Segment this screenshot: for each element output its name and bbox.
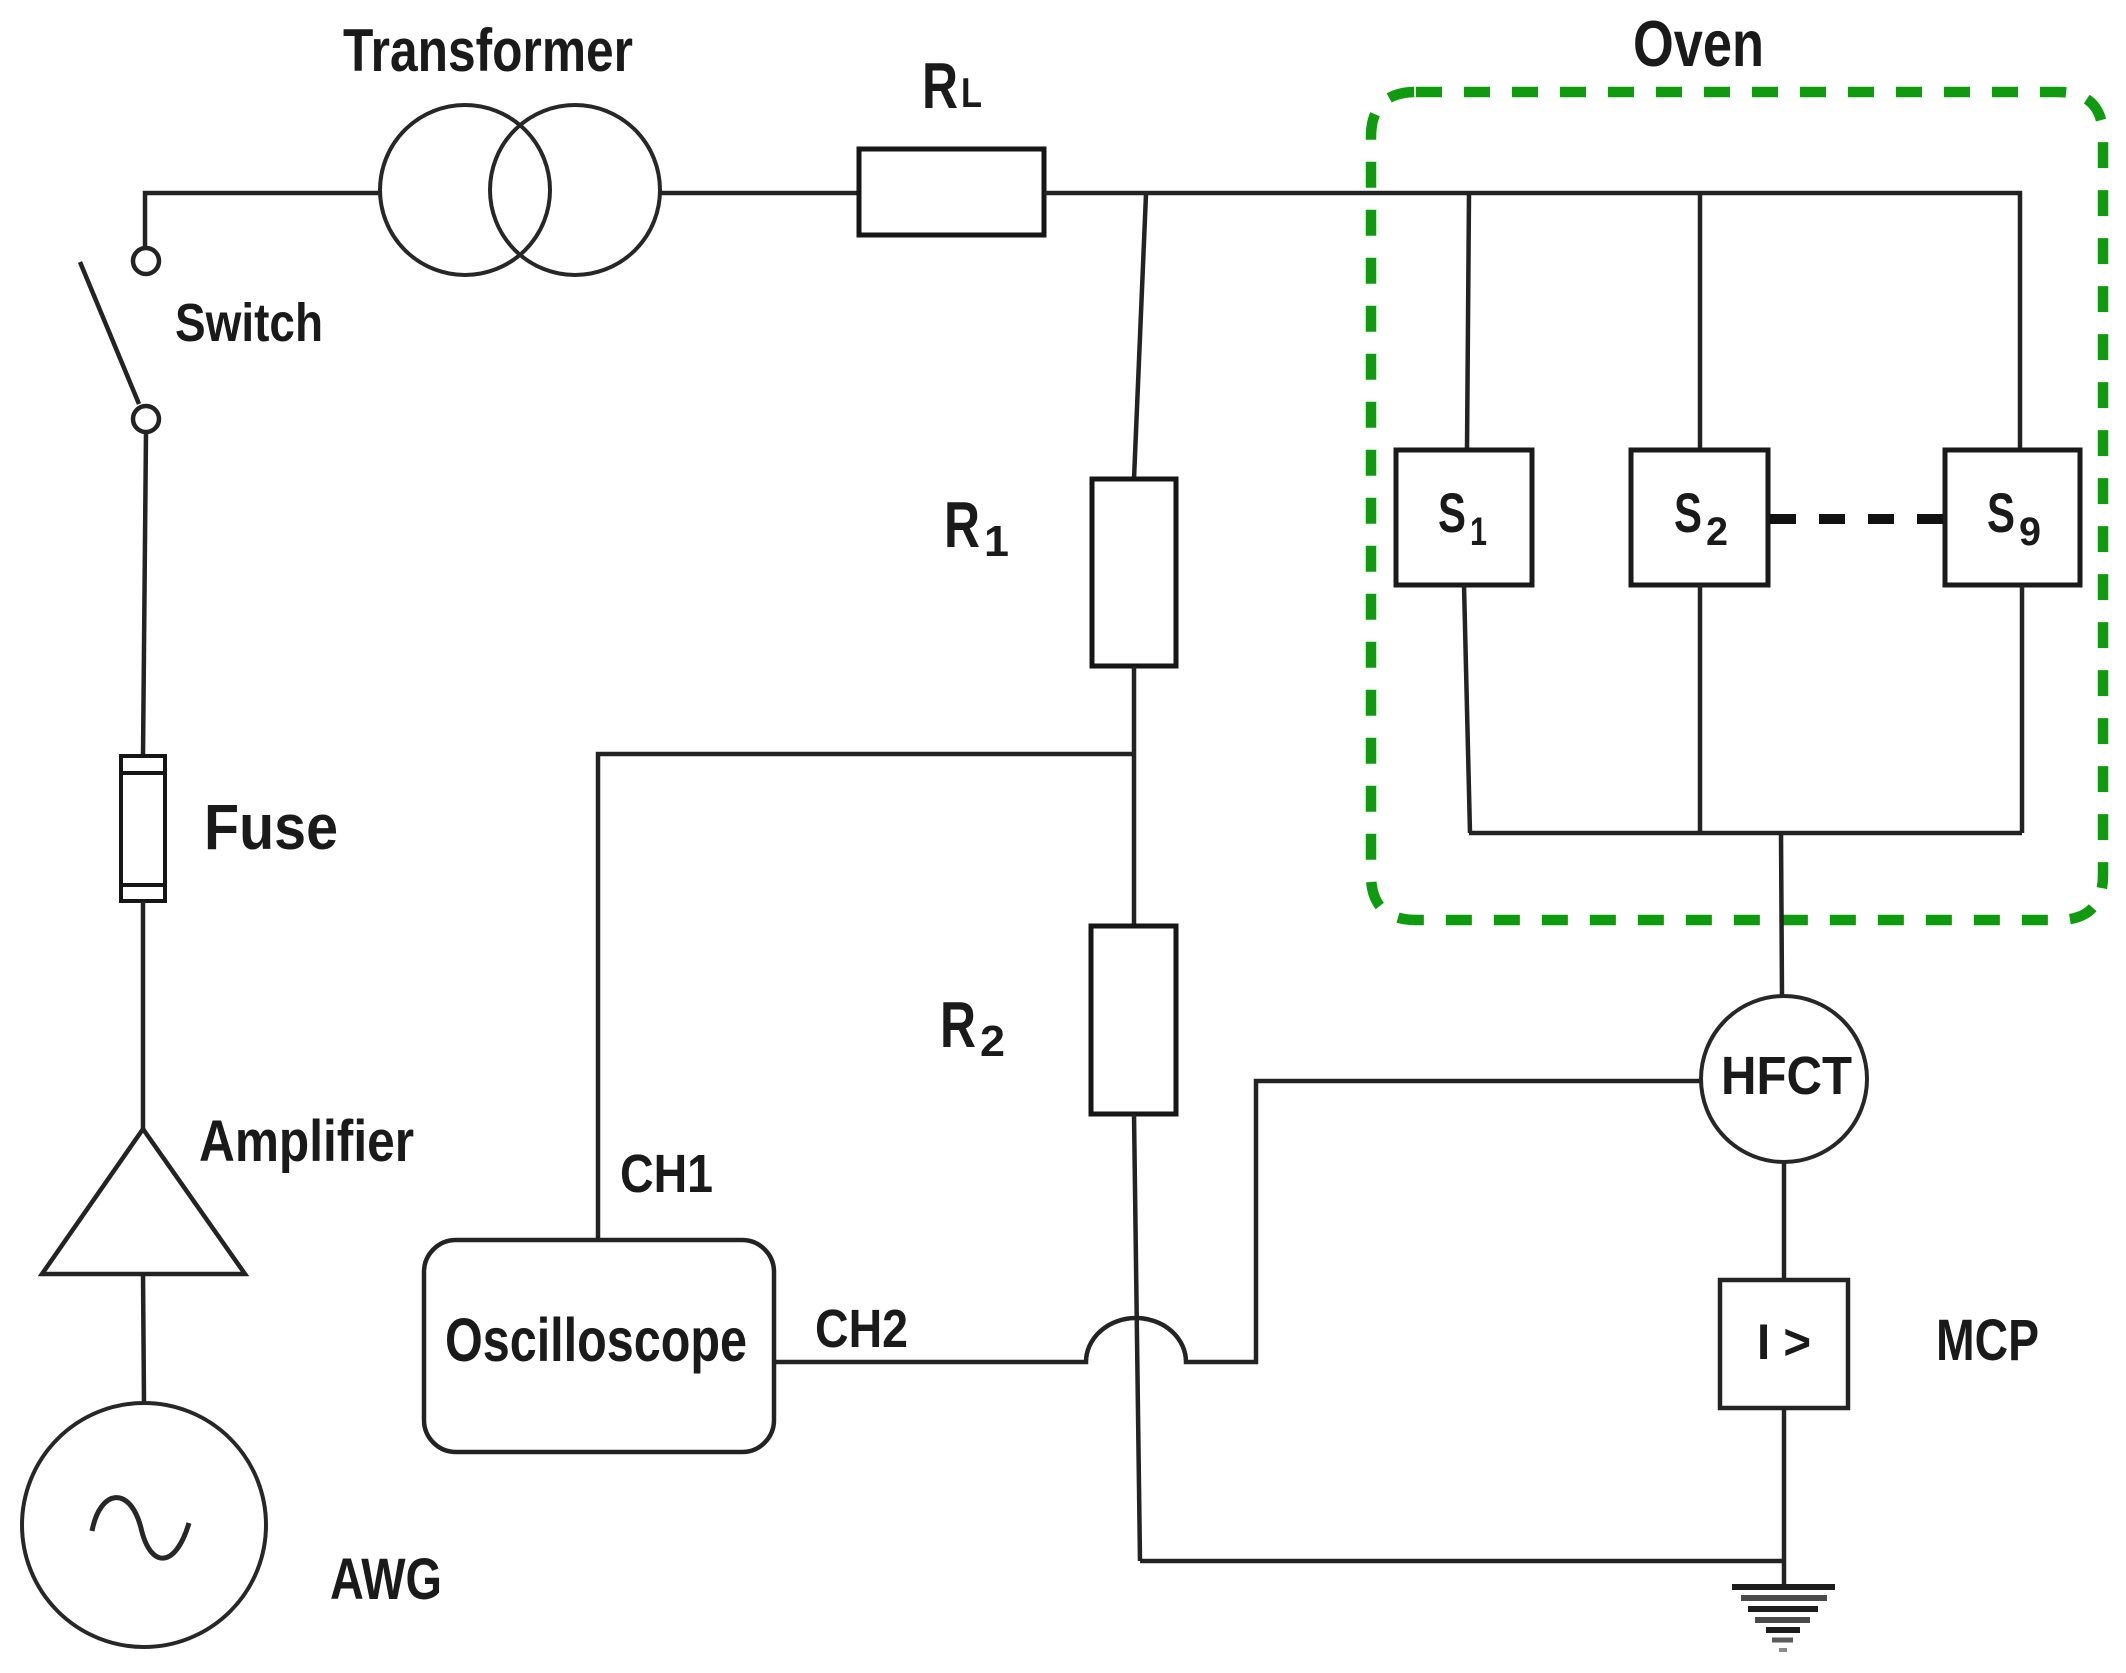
svg-text:Oven: Oven — [1633, 7, 1764, 80]
svg-text:Oscilloscope: Oscilloscope — [445, 1306, 747, 1374]
svg-text:CH1: CH1 — [620, 1144, 713, 1204]
wire HFCT to MCP — [1782, 1162, 1787, 1280]
sample S9 — [1945, 450, 2080, 585]
fuse F1 — [121, 756, 165, 901]
node CH1 junction — [598, 754, 1134, 1240]
svg-text:2: 2 — [980, 1017, 1005, 1066]
svg-text:1: 1 — [1470, 510, 1487, 554]
resistor R2 — [1091, 926, 1176, 1114]
svg-text:AWG: AWG — [330, 1547, 442, 1612]
wire branch to S1 — [1467, 193, 1469, 450]
HFCT sensor — [1701, 996, 1867, 1162]
oscilloscope — [424, 1240, 774, 1452]
MCP relay — [1720, 1280, 1848, 1408]
sample S2 — [1631, 450, 1768, 585]
svg-text:R: R — [940, 988, 976, 1061]
wire top-left corner to switch — [145, 193, 381, 248]
resistor R1 — [1092, 479, 1176, 666]
wire switch to fuse — [143, 432, 146, 756]
svg-text:R: R — [922, 49, 958, 122]
oven bottom bus — [1469, 831, 2022, 836]
svg-text:R: R — [944, 488, 980, 561]
sine symbol — [92, 1498, 189, 1559]
svg-text:S: S — [1438, 481, 1466, 544]
svg-text:S: S — [1674, 481, 1702, 544]
svg-text:9: 9 — [2019, 510, 2041, 554]
wire S1 bottom — [1464, 585, 1470, 833]
wire branch to S2 — [1698, 193, 1703, 450]
wire CH2 with hop — [774, 1081, 1701, 1362]
wire R1 to R2 — [1132, 666, 1137, 926]
svg-text:I >: I > — [1757, 1314, 1811, 1370]
svg-text:CH2: CH2 — [815, 1299, 908, 1359]
svg-text:Switch: Switch — [175, 293, 323, 353]
svg-text:2: 2 — [1706, 510, 1728, 554]
amplifier A1 — [42, 1129, 245, 1274]
svg-text:Fuse: Fuse — [204, 791, 338, 863]
bottom return wire — [1140, 1559, 1784, 1564]
wire MCP to ground — [1782, 1408, 1787, 1587]
wire transformer to RL — [660, 191, 859, 196]
wire RL to oven right corner — [1044, 193, 2020, 450]
switch SW1 — [80, 248, 159, 432]
wire bus to HFCT — [1781, 833, 1782, 996]
AWG source — [22, 1403, 266, 1647]
sample S1 — [1396, 450, 1532, 585]
svg-text:L: L — [961, 69, 982, 116]
svg-text:MCP: MCP — [1936, 1308, 2039, 1373]
wire RL junction down to R1 — [1134, 194, 1146, 479]
resistor RL — [859, 149, 1044, 235]
ground — [1732, 1587, 1835, 1650]
svg-text:Transformer: Transformer — [343, 17, 633, 84]
transformer T1 — [380, 105, 660, 275]
svg-text:HFCT: HFCT — [1721, 1046, 1852, 1106]
wire S9 bottom — [2020, 585, 2025, 833]
svg-text:S: S — [1987, 481, 2015, 544]
svg-text:1: 1 — [984, 517, 1009, 566]
wire fuse to amplifier — [141, 901, 146, 1129]
oven dashed enclosure — [1371, 92, 2103, 920]
dashed link S2 to S9 — [1770, 514, 1943, 524]
wire R2 down to bottom bus — [1134, 1114, 1140, 1561]
wire S2 bottom — [1698, 585, 1703, 833]
wire amplifier to AWG — [143, 1274, 144, 1403]
svg-text:Amplifier: Amplifier — [199, 1109, 414, 1174]
